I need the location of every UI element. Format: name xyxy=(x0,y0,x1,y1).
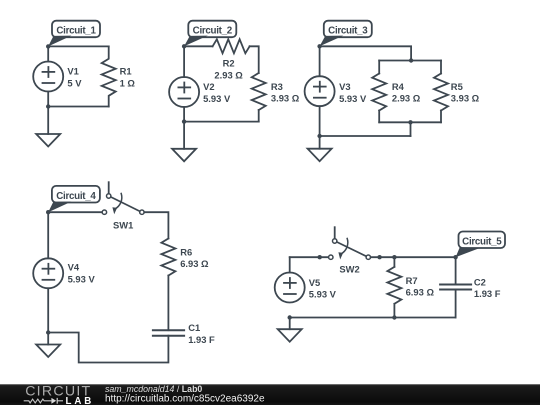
svg-text:1 Ω: 1 Ω xyxy=(120,77,136,88)
svg-text:R4: R4 xyxy=(392,81,405,92)
wire ground stem c3 xyxy=(319,136,321,149)
wire V5 top lead xyxy=(289,257,291,272)
wire branch rail top c3 xyxy=(379,60,441,62)
label Circuit_2 xyxy=(184,21,236,47)
node top c2 xyxy=(182,44,186,48)
svg-text:SW1: SW1 xyxy=(113,219,133,230)
node rail dot b c5 xyxy=(377,255,381,259)
switch SW2 xyxy=(329,227,371,259)
capacitor C2 xyxy=(440,285,471,290)
label Circuit_4 xyxy=(48,186,100,212)
svg-text:sam_mcdonald14 / Lab0: sam_mcdonald14 / Lab0 xyxy=(105,384,202,394)
label R5 3.93ohm xyxy=(451,81,480,104)
svg-text:V4: V4 xyxy=(68,261,80,272)
switch SW1 xyxy=(102,182,144,214)
label C2 1.93 F xyxy=(474,277,501,300)
label Circuit_1 xyxy=(48,21,100,47)
svg-text:3.93 Ω: 3.93 Ω xyxy=(271,93,300,104)
wire R5 bottom lead xyxy=(440,111,442,123)
voltage source V3 xyxy=(305,76,335,106)
wire R7 top lead xyxy=(393,257,395,267)
voltage source V4 xyxy=(33,258,63,288)
logo resistor-diode squiggle xyxy=(24,398,63,404)
svg-text:Circuit_4: Circuit_4 xyxy=(56,191,96,202)
resistor R6 xyxy=(161,239,175,276)
node rail dot a c5 xyxy=(318,255,322,259)
wire V3 bottom lead xyxy=(319,106,321,136)
label R3 3.93ohm xyxy=(271,81,300,104)
wire V1 bottom lead xyxy=(47,92,49,107)
wire top rail left c2 xyxy=(184,45,213,47)
svg-text:LAB: LAB xyxy=(66,396,95,405)
wire V1 top lead xyxy=(47,46,49,61)
wire R3 bottom lead xyxy=(258,110,260,122)
svg-text:R3: R3 xyxy=(271,81,283,92)
svg-text:6.93 Ω: 6.93 Ω xyxy=(406,287,435,298)
svg-text:V3: V3 xyxy=(339,81,350,92)
label Circuit_5 xyxy=(456,232,505,258)
label R7 6.93ohm xyxy=(406,275,435,298)
node top c4 xyxy=(46,210,50,214)
label V3 5.93 V xyxy=(339,81,367,104)
wire R4 bottom lead xyxy=(378,111,380,123)
wire top rail right c5 xyxy=(371,257,456,284)
ground c5 xyxy=(278,329,302,342)
resistor R4 xyxy=(372,74,386,111)
capacitor C1 xyxy=(153,330,184,336)
wire switch to corner c4 xyxy=(144,212,168,238)
node R7 top c5 xyxy=(392,255,396,259)
label C1 1.93 F xyxy=(188,322,215,345)
svg-text:C2: C2 xyxy=(474,277,486,288)
svg-text:R2: R2 xyxy=(223,58,235,69)
svg-text:5.93 V: 5.93 V xyxy=(203,93,231,104)
wire ground stem c5 xyxy=(289,318,291,330)
svg-text:http://circuitlab.com/c85cv2ea: http://circuitlab.com/c85cv2ea6392e xyxy=(105,394,265,405)
wire V4 bottom lead xyxy=(47,288,49,332)
label R1 1ohm xyxy=(120,65,136,88)
wire ground stem c2 xyxy=(183,122,185,149)
wire bottom rail c5 xyxy=(290,317,456,319)
resistor R7 xyxy=(387,267,401,304)
wire V4 top lead xyxy=(47,212,49,258)
svg-text:V1: V1 xyxy=(67,66,78,77)
label Circuit_3 xyxy=(320,21,372,47)
wire R4 top lead xyxy=(378,61,380,74)
ground c1 xyxy=(36,134,60,147)
label V2 5.93 V xyxy=(203,81,231,104)
svg-text:R6: R6 xyxy=(180,247,192,258)
wire C1 to bottom rail c4 xyxy=(48,333,168,363)
svg-text:2.93 Ω: 2.93 Ω xyxy=(392,93,421,104)
wire stem junction c3 xyxy=(410,122,412,136)
node junction top c3 xyxy=(409,58,413,62)
svg-text:R5: R5 xyxy=(451,81,463,92)
wire branch rail bottom c3 xyxy=(379,121,441,123)
svg-text:6.93 Ω: 6.93 Ω xyxy=(180,258,209,269)
node V5 bottom c5 xyxy=(288,315,292,319)
wire R5 top lead xyxy=(440,61,442,74)
node bottom c1 xyxy=(46,104,50,108)
voltage source V1 xyxy=(33,62,63,92)
node bottom c2 xyxy=(182,119,186,123)
label V4 5.93 V xyxy=(68,261,96,284)
node R7 bottom c5 xyxy=(392,315,396,319)
svg-text:V2: V2 xyxy=(203,81,214,92)
ground c3 xyxy=(308,149,332,162)
svg-text:1.93 F: 1.93 F xyxy=(188,334,215,345)
resistor R1 xyxy=(102,46,116,106)
svg-text:Circuit_1: Circuit_1 xyxy=(56,26,96,37)
label R4 2.93ohm xyxy=(392,81,421,104)
wire top rail right c2 xyxy=(250,46,259,73)
wire node to switch c4 xyxy=(48,211,102,213)
resistor R5 xyxy=(434,74,448,111)
svg-text:C1: C1 xyxy=(188,322,200,333)
svg-text:Circuit_5: Circuit_5 xyxy=(462,237,502,248)
footer bar xyxy=(0,384,540,405)
svg-text:2.93 Ω: 2.93 Ω xyxy=(214,70,243,81)
svg-text:Circuit_3: Circuit_3 xyxy=(328,26,368,37)
wire R6 to C1 xyxy=(167,276,169,331)
wire top rail left c5 xyxy=(290,256,329,258)
wire ground stem c1 xyxy=(47,107,49,135)
svg-text:5.93 V: 5.93 V xyxy=(309,289,337,300)
wire top rail c3 xyxy=(320,46,412,60)
ground c4 xyxy=(36,345,60,358)
svg-text:5 V: 5 V xyxy=(67,77,82,88)
node bottom c3 xyxy=(317,134,321,138)
svg-text:V5: V5 xyxy=(309,277,320,288)
svg-text:SW2: SW2 xyxy=(339,264,359,275)
resistor R2 xyxy=(213,39,250,53)
label R2 2.93ohm xyxy=(214,58,243,81)
wire bottom rail c2 xyxy=(184,121,259,123)
svg-text:R7: R7 xyxy=(406,275,418,286)
label V1 5 V xyxy=(67,66,82,89)
wire bottom rail c3 xyxy=(320,135,411,137)
wire bottom rail c1 xyxy=(48,106,108,108)
svg-text:Circuit_2: Circuit_2 xyxy=(193,26,233,37)
node top c3 xyxy=(317,44,321,48)
node top c1 xyxy=(46,44,50,48)
wire V2 top lead xyxy=(183,46,185,77)
svg-text:3.93 Ω: 3.93 Ω xyxy=(451,93,480,104)
ground c2 xyxy=(172,149,196,162)
voltage source V2 xyxy=(169,77,199,107)
node corner c5 xyxy=(453,255,457,259)
wire top rail c1 xyxy=(48,45,108,47)
svg-text:R1: R1 xyxy=(120,65,132,76)
node junction bottom c3 xyxy=(408,120,412,124)
label V5 5.93 V xyxy=(309,277,337,300)
svg-text:1.93 F: 1.93 F xyxy=(474,288,501,299)
wire ground stem c4 xyxy=(47,333,49,345)
svg-text:5.93 V: 5.93 V xyxy=(68,273,96,284)
resistor R3 xyxy=(252,73,266,110)
wire V2 bottom lead xyxy=(183,107,185,122)
node bottom c4 xyxy=(46,330,50,334)
label R6 6.93ohm xyxy=(180,247,209,270)
wire R7 bottom lead xyxy=(393,304,395,318)
wire V3 top lead xyxy=(319,46,321,76)
voltage source V5 xyxy=(275,273,305,303)
svg-text:5.93 V: 5.93 V xyxy=(339,93,367,104)
wire C2 bottom lead xyxy=(455,290,457,318)
